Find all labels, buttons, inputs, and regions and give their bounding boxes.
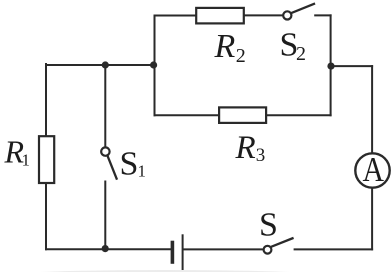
svg-text:1: 1 xyxy=(22,150,31,169)
battery: long positive plate xyxy=(182,235,184,269)
wire: bottom run from left corner to battery xyxy=(46,248,171,250)
svg-text:R: R xyxy=(214,28,236,65)
junction: S1 branch at bottom run xyxy=(102,245,109,252)
wire: top branch, left lead into R2 xyxy=(155,15,197,17)
resistor R2 xyxy=(196,8,244,24)
switch S1: blade (open, hanging down-right) xyxy=(108,156,117,179)
label S xyxy=(259,207,278,244)
junction: parallel section output node xyxy=(327,63,334,70)
battery: short negative plate xyxy=(171,243,175,263)
switch S2: pivot circle xyxy=(283,11,291,19)
wire: S1 branch upper lead xyxy=(104,65,106,147)
wire: switch S to right branch corner xyxy=(295,248,373,250)
resistor R1 xyxy=(39,136,54,183)
svg-text:R: R xyxy=(235,130,256,166)
svg-text:1: 1 xyxy=(138,162,147,181)
switch S: pivot circle xyxy=(264,246,272,254)
ammeter A: body circle xyxy=(355,153,389,187)
label R2 xyxy=(214,28,246,67)
svg-text:2: 2 xyxy=(236,45,246,67)
wire: battery to switch S xyxy=(184,248,263,250)
wire: S2 fixed contact lead xyxy=(315,14,330,16)
junction: left node with parallel section xyxy=(150,61,157,68)
wire: left branch vertical through R1 (x=46) xyxy=(45,64,47,249)
wire: right branch vertical through ammeter (x=372) xyxy=(371,66,373,249)
wire: parallel section left edge (x=154.5) xyxy=(154,16,156,116)
resistor R3 xyxy=(219,107,266,123)
wire: top branch, R2 to switch S2 xyxy=(244,14,282,16)
wire: parallel section right edge (x=330.6) xyxy=(330,15,332,115)
label R3 xyxy=(235,130,266,166)
wire: node feed from left branch to parallel section (y=65) xyxy=(46,64,155,66)
switch S2: blade (open, up-right) xyxy=(292,4,314,13)
switch S1: pivot circle xyxy=(101,147,109,155)
wire: bottom branch through R3 (y=115.3) xyxy=(155,114,331,116)
label S1 xyxy=(120,146,147,183)
svg-text:S: S xyxy=(120,146,139,183)
svg-text:2: 2 xyxy=(296,43,306,65)
label R1 xyxy=(4,134,31,170)
switch S: blade (open, up-right) xyxy=(272,238,292,246)
label S2 xyxy=(280,27,307,66)
svg-text:A: A xyxy=(362,151,384,190)
svg-text:3: 3 xyxy=(256,145,265,166)
wire: S1 branch lower lead xyxy=(104,182,106,250)
ammeter A: letter xyxy=(362,151,384,190)
svg-text:S: S xyxy=(259,207,278,244)
scan shadow at bottom edge xyxy=(15,270,315,272)
wire: parallel-section output node to right branch xyxy=(331,65,372,67)
junction: left node with S1 branch xyxy=(102,61,109,68)
